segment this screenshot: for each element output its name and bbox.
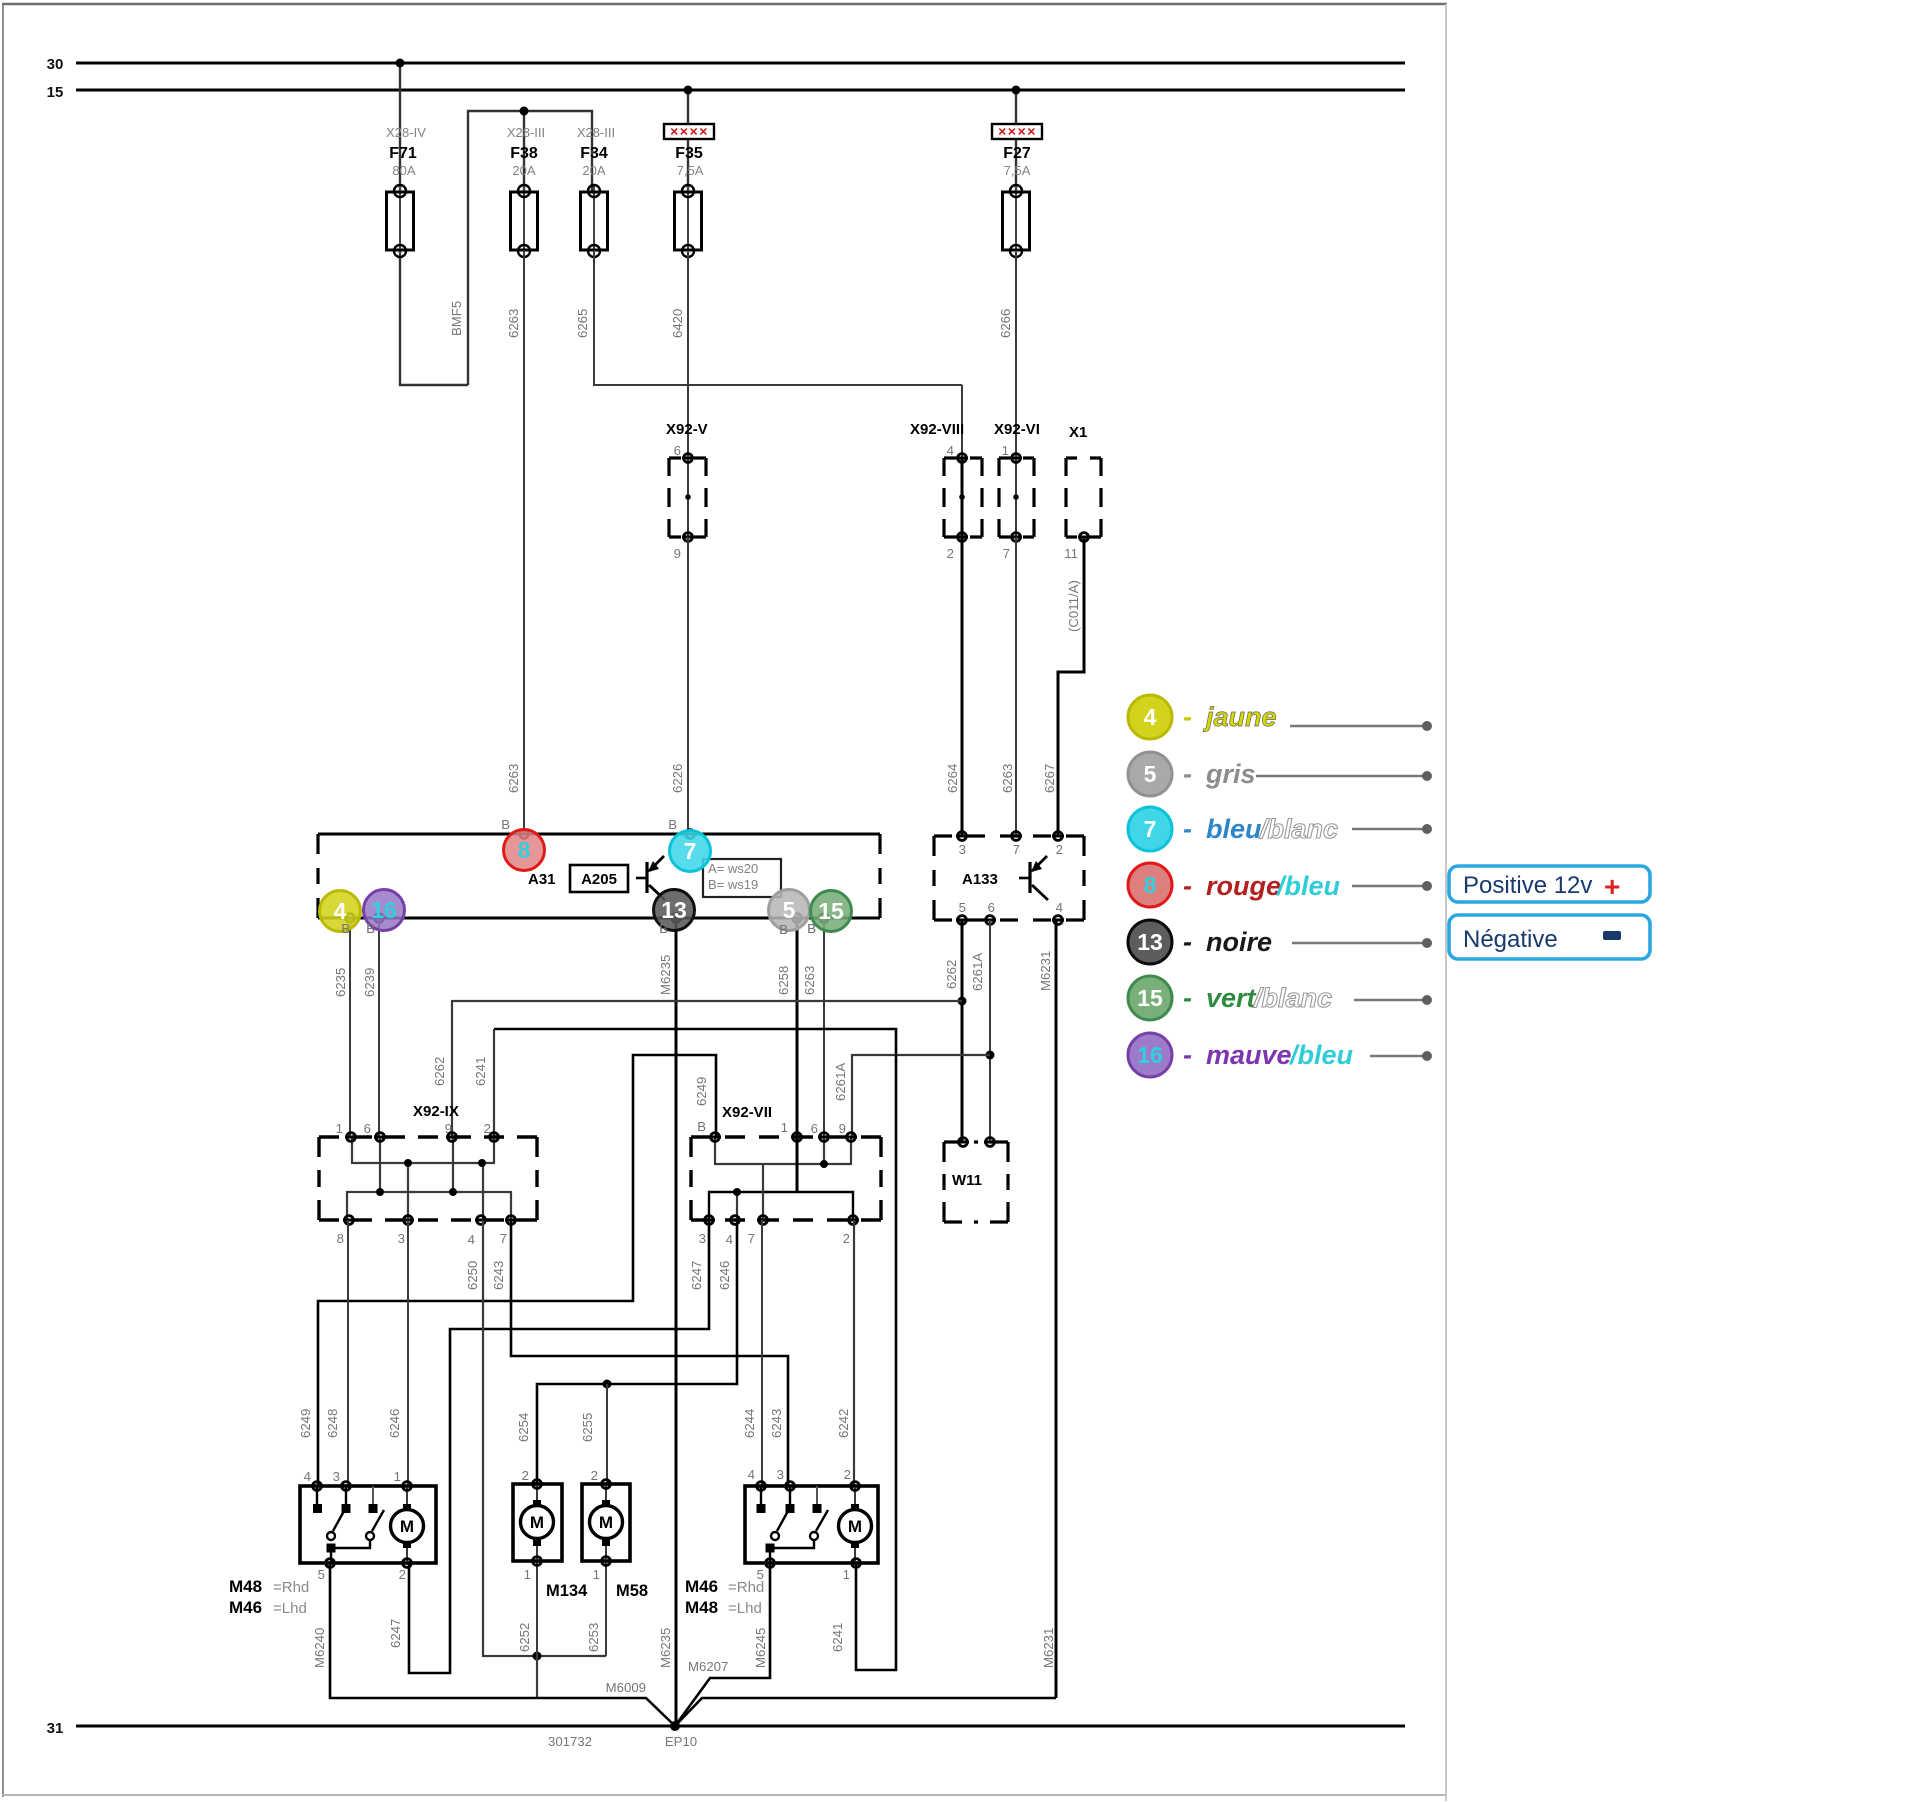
svg-text:6243: 6243 <box>491 1261 506 1290</box>
svg-text:F71: F71 <box>389 145 417 162</box>
svg-text:6420: 6420 <box>670 309 685 338</box>
svg-text:6262: 6262 <box>944 960 959 989</box>
svg-text:W11: W11 <box>952 1172 982 1189</box>
svg-text:M48: M48 <box>685 1598 718 1617</box>
svg-text:Négative: Négative <box>1463 926 1558 953</box>
svg-text:jaune: jaune <box>1203 702 1277 732</box>
svg-text:=Lhd: =Lhd <box>728 1600 762 1617</box>
svg-text:6263: 6263 <box>506 309 521 338</box>
svg-text:31: 31 <box>47 1720 64 1737</box>
svg-text:/blanc: /blanc <box>1253 983 1332 1013</box>
svg-text:6255: 6255 <box>580 1413 595 1442</box>
svg-text:-: - <box>1183 983 1192 1013</box>
svg-text:13: 13 <box>661 897 687 923</box>
svg-text:1: 1 <box>1002 443 1009 458</box>
svg-text:7: 7 <box>1003 546 1010 561</box>
svg-text:A= ws20: A= ws20 <box>708 861 758 876</box>
svg-text:9: 9 <box>839 1121 846 1136</box>
svg-text:-: - <box>1183 871 1192 901</box>
svg-text:7,5A: 7,5A <box>677 163 704 178</box>
svg-text:M6245: M6245 <box>753 1628 768 1668</box>
svg-text:6263: 6263 <box>1000 764 1015 793</box>
svg-text:4: 4 <box>947 443 954 458</box>
svg-text:1: 1 <box>843 1567 850 1582</box>
svg-text:M6207: M6207 <box>688 1659 728 1674</box>
svg-text:6239: 6239 <box>362 968 377 997</box>
svg-text:M6231: M6231 <box>1041 1628 1056 1668</box>
svg-text:7: 7 <box>748 1231 755 1246</box>
svg-text:B: B <box>779 922 788 937</box>
svg-text:bleu: bleu <box>1206 814 1262 844</box>
svg-text:/bleu: /bleu <box>1276 871 1341 901</box>
svg-text:6261A: 6261A <box>970 953 985 991</box>
svg-text:-: - <box>1183 1040 1192 1070</box>
svg-text:16: 16 <box>371 897 397 923</box>
svg-text:M6235: M6235 <box>658 955 673 995</box>
svg-text:/blanc: /blanc <box>1259 814 1338 844</box>
svg-text:=Lhd: =Lhd <box>273 1600 307 1617</box>
svg-text:BMF5: BMF5 <box>449 301 464 336</box>
svg-text:6: 6 <box>364 1121 371 1136</box>
svg-text:-: - <box>1183 814 1192 844</box>
svg-text:M46: M46 <box>229 1598 262 1617</box>
svg-text:6241: 6241 <box>830 1623 845 1652</box>
svg-text:X92-VI: X92-VI <box>994 421 1040 438</box>
svg-text:X92-V: X92-V <box>666 421 708 438</box>
svg-text:2: 2 <box>1056 842 1063 857</box>
svg-text:7: 7 <box>684 838 697 864</box>
svg-text:F34: F34 <box>580 145 608 162</box>
svg-text:7: 7 <box>500 1231 507 1246</box>
svg-text:1: 1 <box>593 1567 600 1582</box>
svg-text:2: 2 <box>843 1231 850 1246</box>
svg-text:B: B <box>341 921 350 936</box>
svg-text:6: 6 <box>674 443 681 458</box>
svg-text:6249: 6249 <box>298 1409 313 1438</box>
svg-text:1: 1 <box>336 1121 343 1136</box>
svg-text:3: 3 <box>959 842 966 857</box>
svg-text:EP10: EP10 <box>665 1734 697 1749</box>
svg-text:6243: 6243 <box>769 1409 784 1438</box>
svg-text:X28-IV: X28-IV <box>386 125 426 140</box>
svg-text:gris: gris <box>1205 759 1256 789</box>
svg-text:rouge: rouge <box>1206 871 1281 901</box>
svg-text:9: 9 <box>674 546 681 561</box>
svg-text:-: - <box>1183 927 1192 957</box>
svg-text:M58: M58 <box>616 1582 648 1600</box>
svg-text:A205: A205 <box>581 871 617 888</box>
svg-text:80A: 80A <box>392 163 415 178</box>
svg-text:16: 16 <box>1137 1042 1163 1068</box>
svg-text:6247: 6247 <box>388 1619 403 1648</box>
svg-text:X28-III: X28-III <box>507 125 545 140</box>
svg-text:M48: M48 <box>229 1577 262 1596</box>
svg-text:2: 2 <box>399 1567 406 1582</box>
svg-text:6242: 6242 <box>836 1409 851 1438</box>
svg-text:B: B <box>501 817 510 832</box>
svg-text:8: 8 <box>1144 872 1157 898</box>
svg-text:2: 2 <box>947 546 954 561</box>
svg-text:M134: M134 <box>546 1582 588 1600</box>
svg-text:M46: M46 <box>685 1577 718 1596</box>
svg-text:F27: F27 <box>1003 145 1031 162</box>
svg-text:4: 4 <box>1056 900 1063 915</box>
svg-text:8: 8 <box>518 837 531 863</box>
svg-text:20A: 20A <box>512 163 535 178</box>
svg-text:7: 7 <box>1013 842 1020 857</box>
svg-text:=Rhd: =Rhd <box>273 1579 309 1596</box>
svg-text:X28-III: X28-III <box>577 125 615 140</box>
svg-text:6241: 6241 <box>473 1057 488 1086</box>
svg-text:2: 2 <box>522 1468 529 1483</box>
svg-text:A133: A133 <box>962 871 998 888</box>
svg-text:20A: 20A <box>582 163 605 178</box>
svg-text:X92-VII: X92-VII <box>722 1104 772 1121</box>
svg-text:6247: 6247 <box>689 1261 704 1290</box>
svg-text:6267: 6267 <box>1042 764 1057 793</box>
svg-text:4: 4 <box>468 1232 475 1247</box>
svg-text:B: B <box>697 1119 706 1134</box>
svg-text:4: 4 <box>1144 704 1157 730</box>
svg-text:5: 5 <box>959 900 966 915</box>
svg-text:6: 6 <box>811 1121 818 1136</box>
svg-text:F35: F35 <box>675 145 703 162</box>
svg-text:6244: 6244 <box>742 1409 757 1438</box>
svg-text:X1: X1 <box>1069 424 1087 441</box>
svg-text:301732: 301732 <box>548 1734 592 1749</box>
svg-text:B: B <box>659 921 668 936</box>
svg-text:B: B <box>366 921 375 936</box>
svg-text:M6235: M6235 <box>658 1628 673 1668</box>
svg-text:B: B <box>807 921 816 936</box>
svg-text:3: 3 <box>699 1231 706 1246</box>
svg-text:B: B <box>668 817 677 832</box>
svg-text:13: 13 <box>1137 929 1163 955</box>
svg-text:8: 8 <box>337 1231 344 1246</box>
svg-text:Positive 12v: Positive 12v <box>1463 872 1592 899</box>
svg-text:6265: 6265 <box>575 309 590 338</box>
svg-text:5: 5 <box>783 897 796 923</box>
svg-text:6262: 6262 <box>432 1057 447 1086</box>
svg-text:5: 5 <box>318 1567 325 1582</box>
svg-text:30: 30 <box>47 56 64 73</box>
svg-text:7,5A: 7,5A <box>1004 163 1031 178</box>
svg-text:6246: 6246 <box>387 1409 402 1438</box>
svg-text:4: 4 <box>726 1232 733 1247</box>
svg-text:M6009: M6009 <box>606 1680 646 1695</box>
svg-text:6252: 6252 <box>517 1623 532 1652</box>
svg-text:-: - <box>1183 759 1192 789</box>
svg-text:3: 3 <box>398 1231 405 1246</box>
svg-text:4: 4 <box>304 1469 311 1484</box>
svg-text:M6240: M6240 <box>312 1628 327 1668</box>
svg-text:6261A: 6261A <box>833 1063 848 1101</box>
svg-text:mauve: mauve <box>1206 1040 1292 1070</box>
svg-text:-: - <box>1183 702 1192 732</box>
svg-text:6249: 6249 <box>694 1077 709 1106</box>
svg-text:X92-VIII: X92-VIII <box>910 421 964 438</box>
svg-text:6263: 6263 <box>506 764 521 793</box>
svg-text:6266: 6266 <box>998 309 1013 338</box>
svg-text:6253: 6253 <box>586 1623 601 1652</box>
svg-text:+: + <box>1604 871 1620 902</box>
svg-text:B= ws19: B= ws19 <box>708 877 758 892</box>
svg-text:2: 2 <box>844 1467 851 1482</box>
svg-text:6264: 6264 <box>945 764 960 793</box>
svg-text:1: 1 <box>394 1469 401 1484</box>
svg-text:6226: 6226 <box>670 764 685 793</box>
svg-text:X92-IX: X92-IX <box>413 1103 459 1120</box>
svg-text:1: 1 <box>781 1120 788 1135</box>
svg-text:A31: A31 <box>528 871 556 888</box>
svg-text:6: 6 <box>988 900 995 915</box>
svg-text:7: 7 <box>1144 816 1157 842</box>
svg-text:3: 3 <box>777 1467 784 1482</box>
svg-text:15: 15 <box>47 84 64 101</box>
svg-text:vert: vert <box>1206 983 1257 1013</box>
svg-text:11: 11 <box>1064 546 1078 561</box>
svg-text:15: 15 <box>1137 985 1163 1011</box>
svg-text:/bleu: /bleu <box>1289 1040 1354 1070</box>
svg-text:M6231: M6231 <box>1038 951 1053 991</box>
svg-text:6263: 6263 <box>802 966 817 995</box>
svg-text:F38: F38 <box>510 145 538 162</box>
svg-text:1: 1 <box>524 1567 531 1582</box>
svg-text:6246: 6246 <box>717 1261 732 1290</box>
svg-text:6248: 6248 <box>325 1409 340 1438</box>
svg-text:15: 15 <box>818 898 844 924</box>
svg-text:5: 5 <box>1144 761 1157 787</box>
svg-text:6235: 6235 <box>333 968 348 997</box>
svg-text:6250: 6250 <box>465 1261 480 1290</box>
svg-text:6254: 6254 <box>516 1413 531 1442</box>
svg-text:noire: noire <box>1206 927 1272 957</box>
svg-text:=Rhd: =Rhd <box>728 1579 764 1596</box>
svg-text:2: 2 <box>591 1468 598 1483</box>
svg-text:3: 3 <box>333 1469 340 1484</box>
svg-text:(C011/A): (C011/A) <box>1066 580 1081 632</box>
svg-text:6258: 6258 <box>776 966 791 995</box>
svg-text:4: 4 <box>748 1467 755 1482</box>
